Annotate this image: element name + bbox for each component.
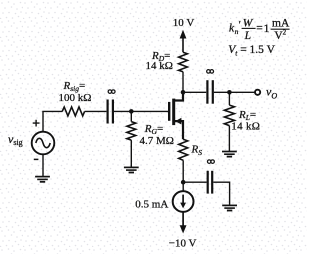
resistor RL <box>224 105 234 126</box>
wire gate node down to RG <box>130 111 132 121</box>
wire RD to drain node <box>182 72 184 93</box>
wire C2 to output node to terminal <box>214 91 255 93</box>
wire CS to ground <box>213 182 229 205</box>
svg-text:2: 2 <box>283 29 287 37</box>
label infinity C1 <box>108 90 115 94</box>
label infinity CS <box>207 160 214 164</box>
resistor RG <box>127 122 136 141</box>
capacitor C1 input coupling <box>106 100 108 124</box>
minus sign polarity <box>34 158 39 160</box>
wire RG to ground <box>130 140 132 167</box>
node gate junction <box>129 109 134 114</box>
ground under CS <box>222 204 237 206</box>
svg-text:100 kΩ: 100 kΩ <box>59 92 92 104</box>
supply VDD +10V arrow <box>182 38 184 53</box>
svg-text:L: L <box>244 30 251 42</box>
sine wave inside v_sig <box>36 138 50 147</box>
ground under v_sig <box>35 176 50 178</box>
node source bypass junction <box>181 180 186 185</box>
svg-text:4.7 MΩ: 4.7 MΩ <box>140 135 174 147</box>
resistor RS <box>179 139 188 160</box>
wire v_sig bottom to ground <box>42 154 44 176</box>
transistor Q1 drain lead <box>175 92 183 100</box>
transistor Q1 gate bar <box>168 102 170 121</box>
wire RL to ground <box>228 126 230 151</box>
transistor Q1 channel bar <box>172 99 175 126</box>
wire source node to current source <box>182 182 184 191</box>
current source I 0.5mA <box>173 191 194 212</box>
wire drain node to C2 <box>183 91 206 93</box>
svg-text:−10 V: −10 V <box>169 238 197 250</box>
plus sign polarity <box>33 120 40 127</box>
svg-text:=: = <box>256 23 263 35</box>
supply VSS -10V arrow <box>182 212 184 227</box>
wire output node down to RL <box>228 92 230 105</box>
voltage source v_sig <box>32 132 55 155</box>
svg-text:14 kΩ: 14 kΩ <box>231 121 260 133</box>
capacitor CS bypass <box>207 171 209 194</box>
equation kn'W/L = 1 mA/V2 <box>229 18 290 42</box>
wire C1 to gate node to gate <box>114 110 168 112</box>
wire RS to source node <box>182 160 184 182</box>
transistor Q1 source arrow <box>175 118 181 125</box>
resistor RD <box>179 52 188 71</box>
terminal vO open circle <box>255 90 260 95</box>
svg-text:0.5 mA: 0.5 mA <box>135 198 168 210</box>
svg-text:1: 1 <box>264 23 270 35</box>
node drain junction <box>181 90 186 95</box>
wire source node to CS <box>183 181 206 183</box>
svg-text:W: W <box>243 18 254 30</box>
wire Rsig to C1 <box>85 110 107 112</box>
capacitor C2 output coupling <box>206 80 208 104</box>
svg-text:mA: mA <box>272 18 290 30</box>
svg-text:′: ′ <box>239 19 241 31</box>
node output junction <box>227 90 232 95</box>
label infinity C2 <box>207 70 214 74</box>
svg-text:10 V: 10 V <box>173 17 195 29</box>
equation Vt = 1.5 V <box>228 44 275 57</box>
svg-text:= 1.5 V: = 1.5 V <box>240 44 275 56</box>
wire input net horizontal to Rsig <box>43 110 62 113</box>
ground under RL <box>222 151 237 153</box>
transistor Q1 source lead <box>175 121 183 139</box>
svg-text:14 kΩ: 14 kΩ <box>146 60 173 72</box>
wire v_sig top to input net <box>42 111 44 131</box>
ground under RG <box>124 166 139 168</box>
resistor Rsig <box>62 107 84 116</box>
